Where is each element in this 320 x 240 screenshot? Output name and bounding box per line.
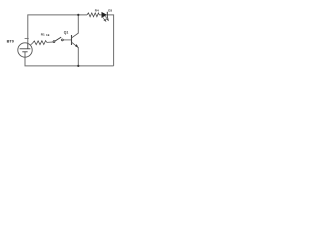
svg-text:1k: 1k — [46, 33, 50, 37]
transistor Q1 emitter arrow — [75, 44, 78, 48]
LED D3 light arrow 1 — [102, 17, 106, 22]
svg-text:R1: R1 — [41, 32, 45, 36]
wire battery to R1 — [30, 43, 32, 45]
switch left contact — [53, 41, 55, 43]
svg-text:BT0: BT0 — [7, 39, 14, 44]
wire collector vertical — [77, 15, 79, 33]
battery BT0 internal symbol — [20, 44, 31, 52]
battery BT0 body circle — [18, 43, 32, 57]
wire emitter vertical — [77, 48, 79, 66]
node junction dot top (collector / top rail) — [77, 14, 79, 16]
LED D3 cathode bar — [106, 12, 108, 18]
resistor R1 zigzag — [33, 41, 47, 45]
resistor R4 zigzag — [87, 13, 101, 17]
switch right contact — [62, 39, 64, 41]
LED D3 light arrow 2 — [105, 16, 109, 21]
switch lever — [55, 37, 61, 41]
wire top rail: battery + up and across to R4 — [28, 15, 87, 44]
svg-text:Q1: Q1 — [64, 31, 69, 35]
svg-text:R4: R4 — [95, 9, 99, 13]
transistor Q1 emitter lead — [72, 42, 79, 48]
wire R1 to switch — [47, 41, 53, 43]
battery BT0 plus sign — [25, 38, 29, 40]
svg-text:D3: D3 — [108, 9, 112, 13]
wire right rail: LED cathode to bottom — [107, 15, 113, 66]
LED D3 anode triangle — [102, 12, 108, 18]
node junction dot bottom (emitter / bottom rail) — [77, 65, 79, 67]
wire switch to base — [63, 39, 71, 41]
transistor Q1 base bar — [71, 35, 73, 45]
wire bottom rail — [25, 52, 114, 66]
transistor Q1 collector lead — [72, 33, 79, 38]
